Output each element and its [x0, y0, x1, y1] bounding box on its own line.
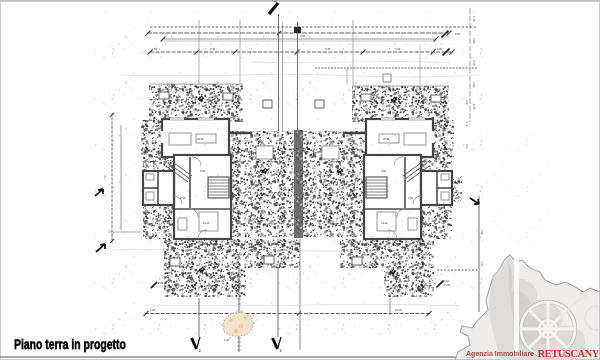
- svg-text:4.40: 4.40: [465, 100, 468, 105]
- svg-text:0.25: 0.25: [472, 16, 476, 22]
- bold arrow left low: [96, 244, 105, 252]
- top vertical dim x353: [352, 20, 354, 86]
- left unit living room: [162, 119, 229, 157]
- svg-text:3.46: 3.46: [325, 47, 331, 51]
- svg-text:0.25: 0.25: [472, 60, 476, 66]
- svg-text:4.90: 4.90: [455, 32, 461, 36]
- svg-text:1.30: 1.30: [437, 47, 443, 51]
- svg-text:7.30: 7.30: [272, 0, 277, 3]
- micro column right x466: [465, 100, 468, 149]
- svg-text:1.98: 1.98: [150, 308, 156, 312]
- right unit living room: [366, 119, 433, 157]
- svg-text:3.40: 3.40: [210, 47, 216, 51]
- shrub symbol courtyard left: [262, 168, 268, 174]
- speckle left of left unit: [141, 120, 174, 239]
- left unit entry steps: [166, 160, 192, 182]
- right vertical dim x479: [479, 196, 483, 312]
- right garden planters: [361, 94, 441, 102]
- faint scan noise over drawing area: [95, 12, 485, 347]
- svg-text:-0.05: -0.05: [206, 260, 212, 264]
- right unit labels: [381, 137, 414, 225]
- left unit windows: [162, 119, 214, 143]
- right unit annex (bath): [421, 171, 452, 205]
- right unit entry steps: [403, 160, 429, 182]
- svg-text:1.35: 1.35: [236, 140, 241, 143]
- left bottom apron (speckled): [164, 239, 300, 297]
- bottom vertical x390: [389, 298, 391, 315]
- dotted line y270: [437, 269, 479, 271]
- svg-text:1.20: 1.20: [236, 190, 241, 193]
- left garden terrace (speckled): [149, 84, 243, 122]
- bold arrow left: [95, 189, 103, 196]
- right unit interior walls: [364, 157, 452, 209]
- svg-text:14.40: 14.40: [381, 221, 388, 225]
- left unit stair (hatched): [208, 177, 229, 198]
- left unit interior noise: [163, 120, 228, 156]
- left garden planters: [159, 92, 233, 100]
- svg-text:14.40: 14.40: [203, 221, 210, 225]
- svg-text:1.20: 1.20: [465, 122, 468, 127]
- left unit door arcs: [174, 157, 207, 239]
- svg-text:4.40: 4.40: [243, 149, 249, 153]
- svg-text:2.60: 2.60: [480, 262, 483, 267]
- apron planters: [170, 256, 362, 266]
- dim line y52: [148, 47, 455, 55]
- svg-text:8.96: 8.96: [176, 95, 182, 99]
- bottom dim line y313: [144, 308, 432, 316]
- bottom vertical x239: [237, 268, 242, 352]
- left vertical dim x121: [120, 125, 122, 230]
- svg-text:4.40: 4.40: [340, 149, 346, 153]
- left vertical dim x112: [104, 113, 114, 243]
- svg-text:3.05: 3.05: [300, 34, 306, 38]
- courtyard entry landing left: [256, 146, 273, 159]
- svg-text:2.60: 2.60: [472, 82, 476, 88]
- party wall between units: [294, 130, 303, 238]
- tree blob: [221, 310, 254, 342]
- left unit interior walls: [143, 157, 231, 209]
- right vertical dim column x470: [470, 8, 476, 122]
- bottom vertical x199: [198, 298, 200, 337]
- svg-text:0.00: 0.00: [333, 183, 339, 187]
- svg-text:0.00: 0.00: [200, 169, 206, 173]
- svg-text:1.50: 1.50: [250, 245, 256, 249]
- courtyard entry landing right: [322, 146, 339, 159]
- svg-text:1.35: 1.35: [350, 140, 355, 143]
- north arrow: [269, 0, 278, 14]
- svg-text:25.96: 25.96: [383, 137, 390, 141]
- bold ticks right end: [442, 31, 450, 56]
- apron micro labels: [185, 245, 404, 264]
- svg-text:25.96: 25.96: [197, 137, 204, 141]
- svg-text:3.44: 3.44: [395, 47, 401, 51]
- svg-text:0.25: 0.25: [472, 104, 476, 110]
- courtyard upper planter left: [263, 100, 272, 108]
- right unit windows: [381, 119, 433, 143]
- bottom vertical x278: [277, 268, 279, 337]
- bold mark 2.93 left: [151, 281, 164, 288]
- bold arrow right x474: [470, 198, 479, 204]
- bold mark 437,282: [437, 280, 451, 288]
- svg-text:2.90: 2.90: [472, 38, 476, 44]
- right unit stair (hatched): [366, 177, 387, 198]
- section arrow bottom center: [273, 337, 283, 353]
- right unit interior noise: [367, 120, 432, 156]
- svg-text:4.40: 4.40: [480, 230, 483, 235]
- svg-text:1.20: 1.20: [350, 190, 355, 193]
- watermark white gap strip: [514, 256, 519, 357]
- svg-text:4.40: 4.40: [350, 164, 355, 167]
- courtyard speckle between units: [229, 131, 365, 237]
- shrub symbol right garden: [391, 97, 397, 103]
- right bottom apron (speckled): [340, 239, 434, 297]
- svg-text:RETUSCANY: RETUSCANY: [538, 349, 600, 360]
- svg-text:Agenzia Immobiliare: Agenzia Immobiliare: [466, 351, 534, 358]
- right unit furniture: [377, 133, 449, 231]
- svg-text:0.91: 0.91: [210, 95, 216, 99]
- svg-text:0.91: 0.91: [444, 280, 449, 283]
- svg-text:8.96: 8.96: [378, 96, 384, 100]
- svg-text:-0.05: -0.05: [398, 260, 404, 264]
- svg-text:3.52: 3.52: [180, 196, 186, 200]
- svg-text:2.93: 2.93: [158, 281, 164, 285]
- svg-text:7.30: 7.30: [104, 175, 107, 180]
- svg-text:0.00: 0.00: [381, 169, 387, 173]
- right garden terrace (speckled): [352, 86, 449, 122]
- svg-text:1.50: 1.50: [185, 245, 191, 249]
- center vertical dim x278: [279, 14, 283, 131]
- wall stub right of party wall: [343, 132, 366, 134]
- left small line y232: [108, 231, 140, 233]
- svg-text:14.06: 14.06: [395, 308, 402, 312]
- svg-text:0.91: 0.91: [412, 96, 418, 100]
- svg-text:2.80: 2.80: [350, 212, 355, 215]
- dim line y33: [146, 31, 461, 37]
- svg-text:0.00: 0.00: [252, 183, 258, 187]
- svg-text:0.40: 0.40: [224, 339, 229, 342]
- dim line y27: [150, 26, 476, 28]
- svg-text:3.52: 3.52: [408, 196, 414, 200]
- courtyard micro labels: [236, 140, 355, 215]
- bottom vertical x300: [299, 239, 301, 350]
- shrub symbol left apron: [199, 267, 205, 273]
- courtyard upper planter right: [315, 100, 324, 108]
- svg-text:2.90: 2.90: [152, 47, 158, 51]
- top vertical dim x240: [239, 20, 241, 84]
- garden band top edges: [150, 84, 449, 86]
- left unit labels: [180, 137, 210, 225]
- shrub symbol courtyard right: [337, 168, 343, 174]
- faint scan streaks: [110, 62, 480, 306]
- left unit lower rooms: [174, 155, 231, 239]
- svg-text:3.10: 3.10: [465, 144, 468, 149]
- shrub symbol left garden: [198, 96, 204, 102]
- svg-text:10.00: 10.00: [444, 284, 451, 287]
- right unit door arcs: [388, 157, 421, 239]
- svg-text:4.40: 4.40: [236, 164, 241, 167]
- wall stub left of party wall: [229, 132, 252, 134]
- top vertical dim x420: [419, 44, 421, 88]
- dim line y39: [161, 34, 439, 42]
- watermark compass rose: [519, 292, 600, 358]
- left unit furniture: [146, 133, 218, 231]
- svg-text:Piano terra in progetto: Piano terra in progetto: [14, 336, 126, 352]
- center vertical dim x297: [294, 22, 301, 131]
- dim line y68: [315, 68, 477, 85]
- speckle right of right unit: [421, 120, 462, 239]
- shrub symbol right apron: [390, 269, 396, 275]
- svg-text:2.80: 2.80: [236, 212, 241, 215]
- right unit lower rooms: [364, 155, 421, 239]
- tuscany watermark silhouette: [455, 255, 600, 360]
- top vertical dim x199: [198, 20, 200, 84]
- section arrow bottom left: [192, 337, 202, 353]
- left unit annex (bath): [143, 171, 174, 205]
